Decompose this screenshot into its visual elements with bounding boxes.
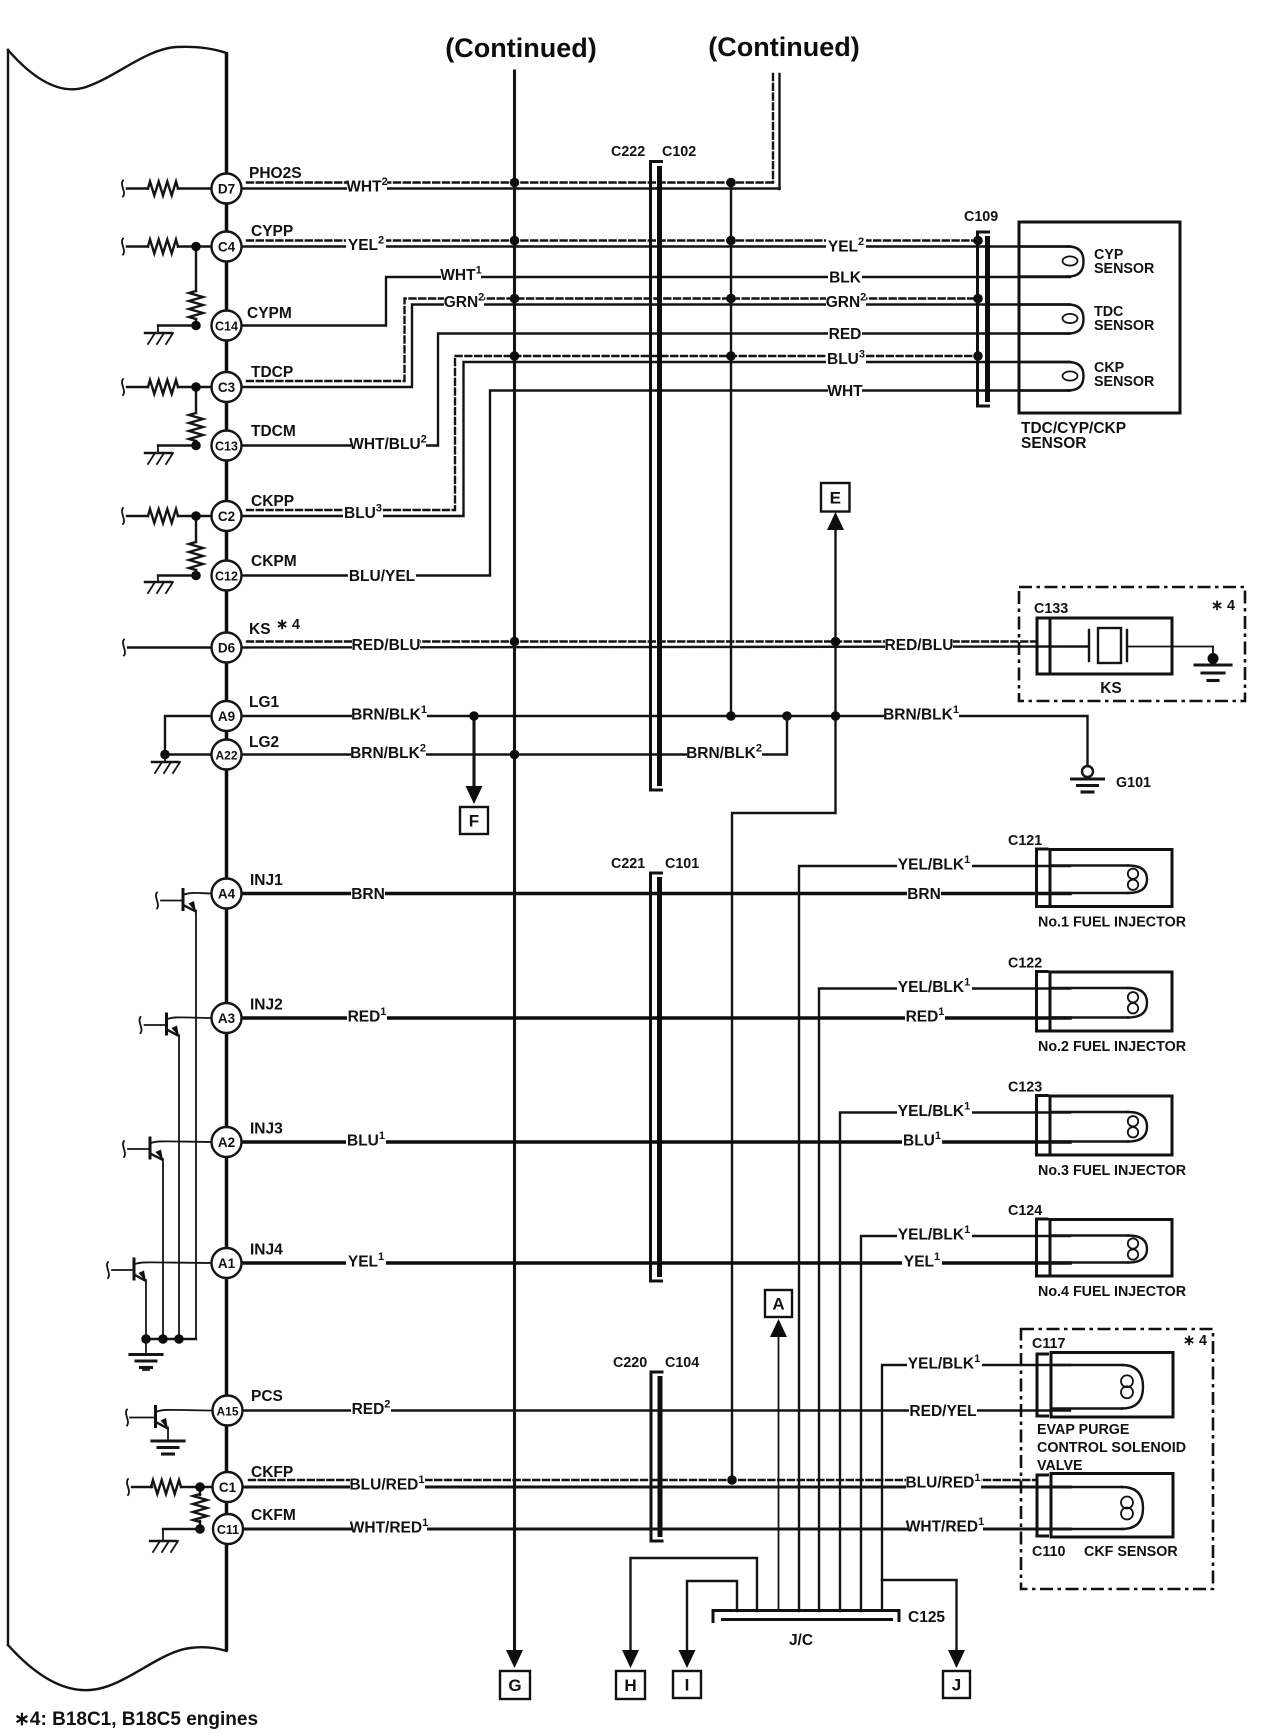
ECM pin A22 [212,740,242,770]
svg-text:∗ 4: ∗ 4 [1211,598,1235,614]
label WHT/RED1 right [908,1515,983,1537]
fuel injector coil C124 [1050,1220,1172,1277]
ECM pin C11 [213,1514,243,1544]
svg-text:C124: C124 [1008,1203,1042,1219]
label YEL/BLK1 EVAP [907,1352,982,1374]
ECM pin A15 [213,1396,243,1426]
emitter ground drop from A1 [145,1280,147,1339]
wire TDCM WHT/BLU2 up to RED row [242,334,1071,446]
wire LG2 BRN/BLK2 joining LG1 [242,716,788,755]
svg-text:J/C: J/C [789,1632,813,1649]
label YEL/BLK1 C123 [897,1100,972,1122]
resistor at pin C4 [122,239,124,255]
resistor at pin D7 [122,181,124,197]
svg-text:SENSOR: SENSOR [1094,261,1155,277]
ECM pin C12 [212,561,242,591]
label BLU/YEL left [348,565,416,587]
svg-text:BRN/BLK2: BRN/BLK2 [350,743,426,763]
svg-text:KS: KS [1100,680,1122,697]
ECM pin C3 [212,372,242,402]
label BLK right [828,266,862,288]
transistor driver at A4 [182,888,185,911]
svg-text:WHT/BLU2: WHT/BLU2 [349,434,427,454]
label BRN/BLK2 left [351,742,426,764]
wire INJ1 BRN main (thick) [242,892,1071,896]
svg-text:C2: C2 [218,509,235,524]
stub at pin D6 [123,640,125,656]
earth ground at A15 [167,1428,169,1440]
wire CYPP YEL2 solid to CYP sensor [242,245,1071,247]
TDC/CYP/CKP sensor box [1019,222,1180,413]
wire CKPM BLU/YEL up to WHT row [242,391,1071,576]
svg-text:BRN: BRN [907,886,941,903]
svg-text:D7: D7 [218,181,235,196]
torn-edge curve top [8,47,227,90]
svg-text:RED/BLU: RED/BLU [352,637,421,654]
wire CKPP shield dashed [247,356,978,510]
fuel injector coil C122 [1050,972,1172,1031]
svg-text:C117: C117 [1032,1336,1065,1352]
connector C222 bracket bar [651,162,664,791]
connector C104 bar [658,1376,663,1537]
label BLU/RED1 right [906,1471,981,1493]
emitter ground drop from A3 [178,1035,180,1339]
fuel injector coil C121 [1050,850,1172,907]
ground inside C133 [1208,653,1219,664]
svg-text:No.2 FUEL INJECTOR: No.2 FUEL INJECTOR [1038,1039,1187,1055]
wire TDCP shield dashed [247,299,978,382]
svg-text:C121: C121 [1008,833,1042,849]
label BLU right [902,1129,942,1151]
svg-text:TDCP: TDCP [251,364,293,381]
ECM pin A3 [212,1003,242,1033]
ECM pin C13 [212,431,242,461]
svg-text:BLU/RED1: BLU/RED1 [905,1472,980,1492]
node H arrow and box [622,1650,639,1668]
label RED right [828,323,862,345]
svg-text:∗4: B18C1, B18C5 engines: ∗4: B18C1, B18C5 engines [14,1709,258,1730]
wire KS shield dashed [247,640,1037,642]
label RED left [347,1005,387,1027]
dash-dot box C133 (knock sensor) [1019,587,1245,701]
svg-text:A2: A2 [218,1135,235,1150]
svg-text:C11: C11 [217,1523,239,1537]
wire YEL/BLK1 branch for C121 [799,866,1070,1611]
resistor at pin C2 [122,508,124,524]
svg-text:C12: C12 [215,569,238,583]
label WHT2 left [347,175,387,197]
node I arrow and box [679,1650,696,1668]
svg-text:INJ3: INJ3 [250,1121,283,1138]
ECM pin D6 [212,633,242,663]
svg-text:A: A [772,1295,784,1314]
node F branch with arrow [472,722,475,787]
svg-text:C102: C102 [662,144,696,160]
connector C220 bracket bar [651,1372,664,1541]
connector C102 bar [657,166,662,786]
svg-text:CKFP: CKFP [251,1464,293,1481]
ECM pin A9 [212,701,242,731]
wire CKFP BLU/RED1 solid [243,1485,1070,1488]
svg-text:VALVE: VALVE [1037,1458,1083,1474]
wire YEL/BLK1 branch for C124 [861,1236,1070,1611]
svg-text:PHO2S: PHO2S [249,165,302,182]
label YEL/BLK1 C121 [897,853,972,875]
label WHT right [828,380,862,402]
transistor driver at A3 [165,1013,168,1036]
svg-text:LG2: LG2 [249,734,279,751]
svg-text:∗ 4: ∗ 4 [276,617,300,633]
svg-text:A4: A4 [218,886,236,901]
pull resistor C3 to C13 with ground [195,387,197,413]
ECM pin C2 [212,501,242,531]
svg-text:C123: C123 [1008,1080,1042,1096]
svg-text:CKPM: CKPM [251,553,297,570]
label YEL right [902,1250,942,1272]
svg-text:CKF SENSOR: CKF SENSOR [1084,1544,1178,1560]
svg-text:CKPP: CKPP [251,493,294,510]
connector C109 bar [985,236,990,402]
label BLU3 right [826,348,866,370]
connector C133 bracket [1037,618,1049,674]
chassis ground at C13 [145,452,171,454]
svg-text:A15: A15 [216,1404,238,1418]
svg-text:A22: A22 [215,748,237,762]
svg-text:A9: A9 [218,709,235,724]
svg-text:WHT1: WHT1 [440,265,481,285]
node E wire: E box down, jog left, to CKFP shield [732,529,836,1480]
label YEL/BLK1 C124 [897,1223,972,1245]
pull resistor C4 to C14 with ground [195,247,197,292]
svg-text:C221: C221 [611,856,645,872]
svg-text:C101: C101 [665,856,699,872]
svg-text:TDCM: TDCM [251,423,296,440]
svg-text:C1: C1 [219,1480,237,1495]
knock sensor KS symbol [1050,618,1172,674]
svg-text:CKFM: CKFM [251,1507,296,1524]
svg-text:BLK: BLK [829,270,862,287]
label WHT1 left [441,264,481,286]
svg-text:WHT: WHT [827,383,863,400]
svg-text:E: E [830,488,841,507]
junction dots on CYPP shield [510,236,520,246]
emitter ground drop from A2 [162,1159,164,1339]
svg-text:WHT2: WHT2 [346,176,387,196]
ECM pin D7 [212,174,242,204]
label BRN/BLK1 right [884,703,959,725]
node G arrow and box [506,1650,523,1668]
junction dot LG2 at node G line [510,750,520,760]
wire node H from J/C [631,1558,758,1652]
page torn-edge border left [7,50,9,1645]
svg-text:SENSOR: SENSOR [1021,435,1086,452]
wire CKFM WHT/RED1 [243,1527,1070,1530]
CKF sensor coil [1051,1474,1173,1538]
ECM pin C4 [212,232,242,262]
svg-text:A1: A1 [218,1256,236,1271]
svg-text:I: I [685,1676,690,1695]
chassis ground at C12 [145,581,171,583]
wire PCS RED2 / RED/YEL to EVAP valve [243,1409,1070,1411]
wire TDCP GRN2 solid [242,305,1071,388]
ground G101 [1082,766,1093,777]
label RED/BLU left [352,634,420,656]
svg-text:WHT/RED1: WHT/RED1 [350,1517,428,1537]
transistor driver at A15 [154,1405,157,1428]
wire CYPM from C14 up to WHT1/BLK row [242,277,1071,326]
label BRN/BLK2 right [687,742,762,764]
torn-edge curve bottom [8,1645,227,1690]
svg-text:INJ2: INJ2 [250,997,283,1014]
svg-text:WHT/RED1: WHT/RED1 [906,1516,984,1536]
svg-text:G101: G101 [1116,775,1151,791]
svg-text:G: G [508,1676,521,1695]
pull resistor C2 to C12 with ground [195,516,197,542]
ECM pin C14 [212,311,242,341]
svg-text:CYPP: CYPP [251,223,293,240]
svg-text:SENSOR: SENSOR [1094,318,1155,334]
wire node I from J/C [687,1581,737,1652]
dash-dot box C117/C110 (*4) [1021,1329,1213,1589]
svg-text:YEL/BLK1: YEL/BLK1 [898,977,970,997]
svg-text:CYPM: CYPM [247,305,292,322]
wire KS RED/BLU solid into C133 [242,647,1088,648]
svg-text:∗ 4: ∗ 4 [1183,1333,1207,1349]
label RED right [905,1005,945,1027]
emitter ground drop from A4 [195,911,197,1340]
chassis ground at C14 [145,332,171,334]
resistor at pin C1 [127,1479,129,1495]
wire PHO2S WHT2: solid [242,187,780,189]
label RED/YEL right [909,1400,977,1422]
connector C110 bracket [1037,1475,1049,1536]
PHO2S continuation pair up to (Continued) [772,74,774,183]
pull resistor C1 to C11 with ground [199,1487,201,1495]
label BLU/RED1 left [350,1473,425,1495]
svg-text:C110: C110 [1032,1544,1065,1560]
wire INJ2 RED main (thick) [242,1016,1071,1020]
svg-text:LG1: LG1 [249,694,280,711]
label WHT/BLU2 left [351,433,426,455]
svg-text:INJ4: INJ4 [250,1242,283,1259]
connector C121 bracket [1037,849,1049,907]
svg-text:BLU/RED1: BLU/RED1 [349,1474,424,1494]
ECM pin A2 [212,1127,242,1157]
transistor driver at A2 [149,1137,152,1160]
svg-text:(Continued): (Continued) [445,33,596,63]
label RED2 left [351,1398,391,1420]
label WHT/RED1 left [352,1516,427,1538]
wire A9 to A22 ground link [165,716,212,755]
svg-text:BRN: BRN [351,886,385,903]
label YEL2 right [826,235,866,257]
wire YEL/BLK1 branch for C122 [819,989,1070,1612]
common emitter rail with dots [146,1338,196,1340]
resistor at pin C3 [122,379,124,395]
earth ground for injector drivers [145,1339,147,1352]
node J arrow and box [948,1650,965,1668]
svg-text:No.1 FUEL INJECTOR: No.1 FUEL INJECTOR [1038,915,1187,931]
CKP sensor pickup coil [1019,361,1068,363]
chassis ground at A22 [152,761,178,763]
junction dots on PHO2S shield [510,178,520,188]
connector C101 bar [657,877,662,1277]
svg-text:D6: D6 [218,640,236,655]
label BRN/BLK1 left [352,703,427,725]
chassis ground at C11 [150,1540,176,1542]
svg-text:F: F [469,812,479,831]
fuel injector coil C123 [1050,1096,1172,1155]
label BRN left [351,883,385,905]
wire YEL/BLK1 branch for C123 [840,1113,1070,1612]
svg-text:No.3 FUEL INJECTOR: No.3 FUEL INJECTOR [1038,1163,1187,1179]
node E box with arrow [821,483,850,512]
svg-text:C125: C125 [908,1609,945,1626]
connector C122 bracket [1037,972,1049,1032]
svg-text:CONTROL SOLENOID: CONTROL SOLENOID [1037,1440,1186,1456]
label BLU left [346,1129,386,1151]
shield drain wire x=731 (joins dashed shields to LG1) [730,183,732,717]
ECM pin A4 [212,879,242,909]
wire CYPP shield dashed [247,239,978,241]
svg-text:INJ1: INJ1 [250,872,283,889]
svg-text:C222: C222 [611,144,645,160]
svg-text:C122: C122 [1008,956,1042,972]
node G wire: vertical from (Continued) down to G box [513,71,516,1652]
svg-text:PCS: PCS [251,1388,283,1405]
connector C117 bracket [1037,1354,1049,1416]
junction dots on TDCP shield [510,294,520,304]
node F box [460,807,488,834]
EVAP purge control solenoid valve coil [1051,1353,1173,1418]
junction dots on KS shield [510,637,520,647]
connector C124 bracket [1037,1219,1049,1276]
svg-text:A3: A3 [218,1011,236,1026]
label RED/BLU right [885,634,953,656]
label BLU3 left [343,502,383,524]
connector C109 bracket [978,232,991,406]
svg-text:KS: KS [249,621,271,638]
svg-text:C104: C104 [665,1355,699,1371]
svg-text:RED: RED [829,326,862,343]
junction dots on CKPP shield [510,351,520,361]
svg-text:C3: C3 [218,380,236,395]
svg-text:J: J [952,1676,961,1695]
svg-text:C220: C220 [613,1355,647,1371]
node A wire: arrow up into A box, line down to J/C [778,1336,780,1611]
label GRN2 left [444,291,484,313]
label YEL2 left [346,234,386,256]
junction dot E-line on CKFP shield [727,1475,737,1485]
wire LG1 BRN/BLK1 to G101 [242,716,1088,766]
TDC sensor pickup coil [1019,303,1068,305]
CYP sensor pickup coil [1019,245,1068,247]
junction dots on LG1 [469,711,479,721]
svg-text:(Continued): (Continued) [708,32,859,62]
wire YEL/BLK1 EVAP branch to node J [882,1365,1070,1610]
ECM pin C1 [213,1472,243,1502]
label GRN2 right [826,291,866,313]
svg-text:YEL/BLK1: YEL/BLK1 [908,1353,980,1373]
svg-text:BRN/BLK1: BRN/BLK1 [883,704,959,724]
svg-text:RED/BLU: RED/BLU [885,637,954,654]
label YEL left [346,1250,386,1272]
label BRN right [907,883,941,905]
ECM bus line [225,52,229,1651]
svg-text:No.4 FUEL INJECTOR: No.4 FUEL INJECTOR [1038,1284,1187,1300]
svg-text:C109: C109 [964,209,998,225]
label YEL/BLK1 C122 [897,976,972,998]
wire INJ4 YEL main (thick) [242,1261,1071,1265]
svg-text:C133: C133 [1034,601,1068,617]
svg-text:C4: C4 [218,239,236,254]
wire PHO2S shield dashed [247,181,773,183]
connector C123 bracket [1037,1096,1049,1156]
svg-text:YEL/BLK1: YEL/BLK1 [898,1101,970,1121]
connector C221 bracket bar [651,873,664,1281]
svg-text:BRN/BLK2: BRN/BLK2 [686,743,762,763]
ECM pin A1 [212,1248,242,1278]
svg-text:H: H [624,1676,636,1695]
svg-text:BLU/YEL: BLU/YEL [349,568,415,585]
svg-text:RED/YEL: RED/YEL [909,1403,976,1420]
svg-text:YEL/BLK1: YEL/BLK1 [898,1224,970,1244]
wire CKPP BLU3 solid [242,362,1071,516]
svg-text:BRN/BLK1: BRN/BLK1 [351,704,427,724]
svg-text:C14: C14 [215,319,238,333]
wire CKFP shield dashed [249,1479,1037,1481]
svg-text:YEL/BLK1: YEL/BLK1 [898,854,970,874]
junction connector C125 bars [713,1611,899,1624]
svg-text:SENSOR: SENSOR [1094,374,1155,390]
svg-text:C13: C13 [215,439,238,453]
transistor driver at A1 [133,1258,136,1281]
svg-text:EVAP PURGE: EVAP PURGE [1037,1422,1129,1438]
wire INJ3 BLU main (thick) [242,1140,1071,1144]
